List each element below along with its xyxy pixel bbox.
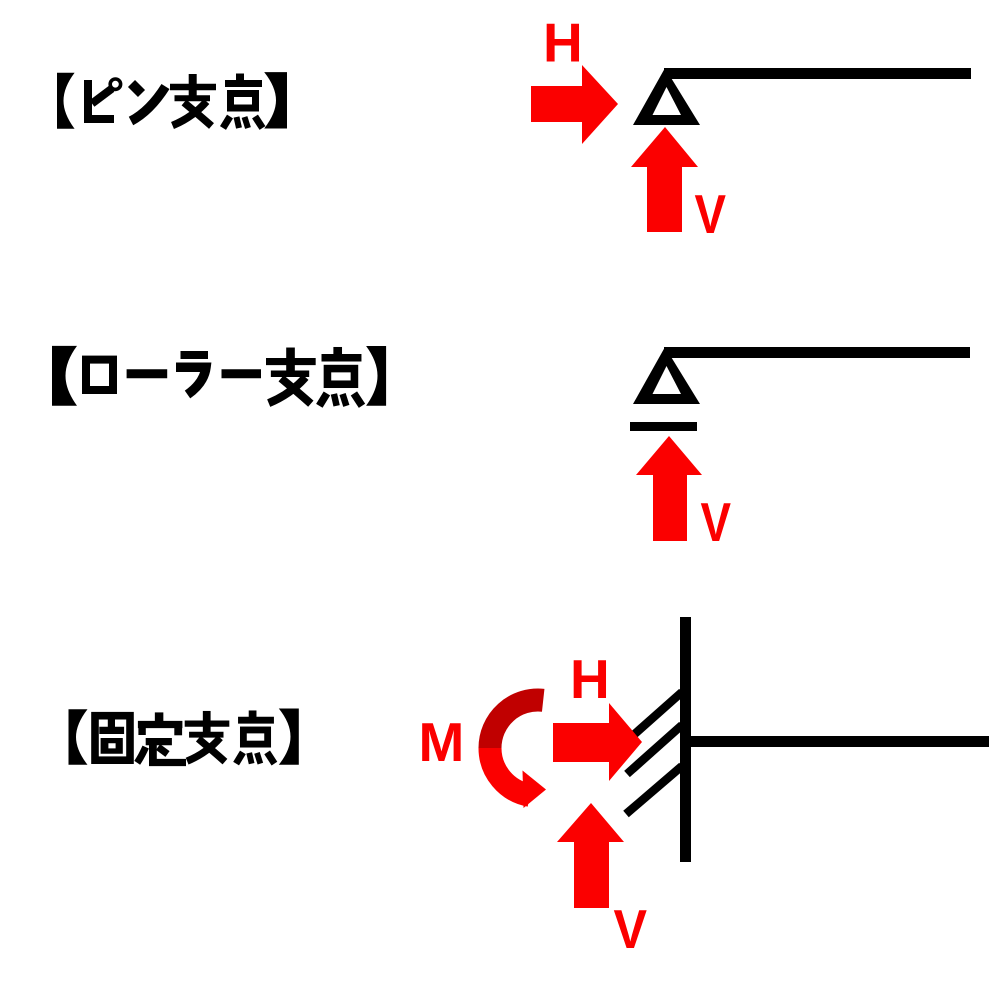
katakana ー — [222, 369, 262, 378]
roller support: triangle — [633, 347, 700, 404]
bracket 【 — [57, 73, 75, 129]
katakana ー — [127, 369, 168, 378]
arrow H1 (horizontal reaction, top) — [531, 65, 618, 144]
fixed support: beam 3 — [686, 736, 989, 747]
kanji 支点 — [185, 710, 275, 763]
bracket 【 — [69, 709, 88, 765]
arrow H3 (horizontal reaction, bottom) — [553, 703, 642, 781]
svg-text:M: M — [419, 711, 465, 773]
label 3: 【固定支点】 fixed support title — [69, 709, 299, 765]
kanji 支 — [266, 348, 316, 404]
label 2: 【ローラー支点】 roller support title — [52, 346, 386, 406]
roller base line — [630, 422, 697, 431]
katakana ロ — [86, 360, 113, 390]
bracket 【 — [52, 346, 77, 406]
kanji 定 — [137, 712, 186, 762]
arrow V2 (vertical reaction, middle) — [636, 436, 702, 541]
svg-text:H: H — [570, 648, 610, 710]
kanji 支 — [170, 74, 216, 126]
pin support: beam 1 — [664, 68, 971, 79]
hatch line 2 — [627, 725, 682, 774]
bracket 】 — [279, 709, 299, 765]
pin support: triangle — [633, 68, 700, 125]
katakana ラ — [176, 355, 208, 395]
svg-text:V: V — [614, 898, 648, 960]
kanji 点 — [223, 74, 263, 129]
fixed support: wall vertical line — [680, 617, 691, 862]
label 1: 【ピン支点】 pin support title — [57, 72, 287, 129]
moment arrowhead — [523, 771, 547, 809]
moment arc dark top half — [490, 700, 543, 748]
hatch line 3 — [626, 766, 682, 814]
moment arc bright bottom half — [490, 748, 530, 795]
bracket 】 — [366, 346, 386, 406]
katakana ン — [131, 84, 166, 122]
katakana ピ — [88, 79, 121, 119]
hatch line 1 — [629, 692, 682, 739]
svg-text:H: H — [543, 12, 583, 74]
arrow V1 (vertical reaction, top) — [631, 127, 698, 232]
arrow V3 (vertical reaction, bottom) — [557, 803, 624, 908]
bracket 】 — [264, 72, 287, 128]
kanji 固 — [95, 716, 130, 761]
roller support: beam 2 — [664, 347, 970, 358]
svg-text:V: V — [695, 183, 727, 245]
kanji 点 — [319, 347, 362, 406]
svg-text:V: V — [701, 491, 732, 553]
